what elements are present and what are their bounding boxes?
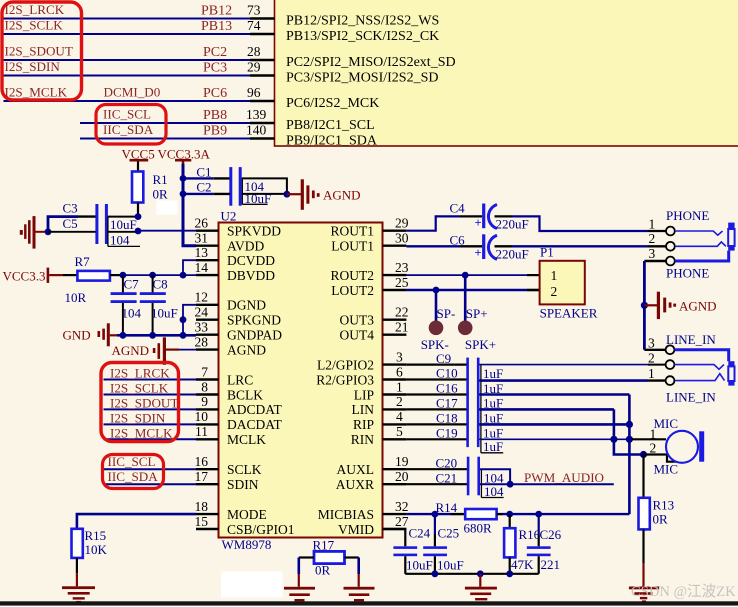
svg-text:OUT4: OUT4 [340, 328, 375, 343]
value box 104 (C1) [242, 178, 264, 194]
capacitor C20/C21 leads (left) [406, 469, 467, 484]
svg-text:I2S_SCLK: I2S_SCLK [5, 18, 64, 33]
wire I2S_SCLK to BCLK [104, 394, 197, 396]
svg-text:4: 4 [396, 409, 403, 424]
svg-text:RIP: RIP [353, 417, 374, 432]
svg-text:LOUT2: LOUT2 [331, 283, 374, 298]
ground (earth) below R17 right [344, 587, 375, 602]
svg-text:6: 6 [396, 364, 403, 379]
svg-text:1: 1 [648, 366, 655, 381]
wire R14 out to bias column [497, 513, 630, 515]
value box 104 (C20) [481, 469, 504, 499]
MCU sheet-symbol block (partial, top right) [275, 0, 738, 146]
white patch (erased area bottom left) [221, 572, 283, 598]
svg-text:VMID: VMID [338, 522, 374, 537]
svg-text:LIP: LIP [354, 387, 374, 402]
wire IIC_SDA to SDIN [104, 483, 197, 485]
svg-text:R7: R7 [75, 254, 91, 269]
svg-text:C24: C24 [409, 526, 431, 541]
node C25 bottom [432, 570, 439, 577]
svg-text:1: 1 [396, 379, 403, 394]
svg-text:AGND: AGND [227, 342, 266, 357]
svg-text:LIN: LIN [352, 402, 375, 417]
capacitor C7 [111, 275, 142, 335]
svg-text:104: 104 [484, 484, 504, 499]
svg-text:28: 28 [247, 44, 261, 59]
svg-text:I2S_MCLK: I2S_MCLK [110, 425, 173, 440]
svg-text:I2S_SDIN: I2S_SDIN [110, 410, 166, 425]
svg-text:12: 12 [195, 290, 209, 305]
svg-text:21: 21 [395, 320, 409, 335]
svg-text:GNDPAD: GNDPAD [227, 328, 282, 343]
svg-text:I2S_MCLK: I2S_MCLK [5, 85, 68, 100]
node VCC3.3A/C2 [180, 191, 187, 198]
resistor R16 [504, 514, 541, 574]
svg-text:R16: R16 [519, 527, 541, 542]
svg-text:2: 2 [551, 284, 558, 299]
ground AGND (left of pin 28) [112, 337, 180, 365]
svg-text:PB8/I2C1_SCL: PB8/I2C1_SCL [286, 118, 375, 133]
svg-text:5: 5 [396, 424, 403, 439]
svg-text:PC2: PC2 [203, 45, 227, 60]
svg-text:32: 32 [395, 499, 409, 514]
pin stub PB8 pin 139 [250, 122, 275, 124]
svg-text:16: 16 [195, 454, 209, 469]
resistor R14 [436, 500, 497, 536]
svg-text:96: 96 [247, 85, 261, 100]
svg-text:I2S_SDIN: I2S_SDIN [5, 59, 61, 74]
svg-text:I2S_LRCK: I2S_LRCK [110, 366, 170, 381]
capacitor C24 [393, 526, 432, 574]
svg-text:AUXR: AUXR [336, 477, 374, 492]
wire C16 out (LIP coupling) [480, 393, 630, 396]
pin stub PB12 pin 73 [250, 17, 275, 19]
svg-text:SDIN: SDIN [227, 477, 259, 492]
svg-text:1: 1 [551, 268, 558, 283]
svg-text:+: + [475, 216, 482, 230]
power port VCC3.3A [158, 147, 211, 166]
svg-text:C18: C18 [436, 411, 458, 426]
white patch (erased area near U2 top) [157, 201, 178, 215]
svg-text:31: 31 [195, 231, 209, 246]
svg-text:PC3: PC3 [203, 61, 227, 76]
annotation red rounded box around I2S labels [101, 363, 179, 442]
svg-text:C3: C3 [63, 201, 78, 216]
wire DCVDD branch [183, 260, 196, 275]
svg-text:3: 3 [396, 349, 403, 364]
wire I2S_SDIN to DACDAT [104, 423, 197, 425]
ground (signal gnd near C3/C5) [20, 216, 48, 249]
wire R7 output to DBVDD [123, 274, 196, 276]
svg-text:PB9/I2C1_SDA: PB9/I2C1_SDA [286, 134, 378, 149]
wire C20 out jog down [480, 469, 510, 484]
node VCC3.3A/C1 [180, 175, 187, 182]
node RIN/bias junction [626, 436, 633, 443]
svg-text:C4: C4 [450, 201, 466, 216]
svg-text:2: 2 [650, 440, 657, 455]
svg-text:C10: C10 [436, 366, 458, 381]
node SPKGND tap [180, 316, 187, 323]
svg-text:I2S_SCLK: I2S_SCLK [110, 381, 169, 396]
svg-text:SPKGND: SPKGND [227, 313, 281, 328]
svg-text:1uF: 1uF [483, 366, 503, 381]
svg-text:104: 104 [484, 470, 504, 485]
svg-text:SP-: SP- [437, 306, 456, 321]
wire C10 out to LINE_IN pin1 [480, 379, 667, 382]
svg-text:R2/GPIO3: R2/GPIO3 [316, 372, 374, 387]
resistor R1 [132, 172, 168, 217]
node R7/C8 [149, 272, 156, 279]
wire C21 out / PWM_AUDIO net [480, 483, 614, 485]
svg-text:1: 1 [649, 216, 656, 231]
svg-text:U2: U2 [221, 209, 237, 224]
svg-text:PHONE: PHONE [666, 265, 709, 280]
svg-text:15: 15 [195, 514, 209, 529]
node SP- tap on LOUT2 wire [433, 287, 440, 294]
wire C6 to PHONE pin2 [495, 245, 667, 247]
svg-text:IIC_SCL: IIC_SCL [103, 107, 151, 122]
node MIC pin2 / R13 junction [640, 451, 647, 458]
svg-text:MCLK: MCLK [227, 432, 266, 447]
value box 10uF (C3) [108, 217, 137, 232]
svg-text:2: 2 [396, 394, 403, 409]
node DCVDD/DBVDD [180, 272, 187, 279]
svg-text:C25: C25 [438, 526, 460, 541]
microphone symbol (MIC) [666, 431, 704, 463]
svg-text:SCLK: SCLK [227, 462, 262, 477]
svg-text:PC2/SPI2_MISO/I2S2ext_SD: PC2/SPI2_MISO/I2S2ext_SD [286, 55, 456, 70]
capacitor C1 [183, 164, 242, 205]
svg-text:ADCDAT: ADCDAT [227, 402, 283, 417]
wire C4 to PHONE pin1 [495, 216, 667, 231]
svg-text:MIC: MIC [654, 462, 679, 477]
wire LOUT2 to SPEAKER pin2 [406, 289, 539, 292]
annotation red rounded box around IIC labels [103, 455, 164, 489]
svg-text:GND: GND [63, 328, 91, 343]
wire LOUT1 to C6 [406, 245, 482, 247]
wire I2S_SDOUT to ADCDAT [104, 408, 197, 410]
svg-text:C19: C19 [436, 426, 458, 441]
svg-text:27: 27 [395, 514, 409, 529]
svg-text:3: 3 [648, 335, 655, 350]
wire I2S_MCLK / DCMI_D0 to PC6 [4, 100, 251, 102]
svg-text:PB8: PB8 [203, 108, 227, 123]
svg-text:RIN: RIN [351, 432, 375, 447]
svg-text:220uF: 220uF [496, 217, 529, 232]
ground AGND (near C1/C2) [287, 179, 361, 210]
svg-text:C16: C16 [436, 381, 458, 396]
wire I2S_SDOUT to PC2 [4, 59, 251, 61]
svg-text:+: + [475, 246, 482, 260]
resistor R15 [72, 528, 108, 586]
svg-text:DCMI_D0: DCMI_D0 [104, 85, 161, 100]
U2 right pin numbers [395, 216, 409, 529]
svg-text:10uF: 10uF [437, 558, 464, 573]
wire VMID filter ground rail [405, 573, 538, 575]
svg-text:PB12/SPI2_NSS/I2S2_WS: PB12/SPI2_NSS/I2S2_WS [286, 14, 439, 29]
value box column for 1uF values [481, 365, 503, 454]
node C5/ground junction [45, 228, 52, 235]
svg-text:10uF: 10uF [110, 217, 137, 232]
capacitor C3 [63, 201, 139, 245]
pin stub PC6 pin 96 [250, 100, 275, 102]
jack J-PHONE switch contacts and sleeve [675, 223, 735, 261]
node SP+ tap on ROUT2 wire [462, 272, 469, 279]
svg-text:DCVDD: DCVDD [227, 253, 275, 268]
capacitor stack C9/C10/C16/C17/C18/C19 leads (left) [406, 365, 466, 440]
svg-text:IIC_SDA: IIC_SDA [103, 122, 154, 137]
annotation red rounded box around I2S top labels [2, 2, 82, 100]
svg-text:13: 13 [195, 245, 209, 260]
svg-text:220uF: 220uF [496, 247, 529, 262]
wire I2S_LRCK to PB12 [4, 18, 251, 20]
svg-text:LINE_IN: LINE_IN [666, 390, 716, 405]
svg-text:LRC: LRC [227, 372, 253, 387]
svg-text:I2S_LRCK: I2S_LRCK [5, 2, 65, 17]
wire C1 return to AGND node [242, 178, 287, 194]
svg-text:C7: C7 [124, 277, 140, 292]
wire SPKVDD net to pin 26 [138, 230, 196, 232]
jack J-LINE_IN switch contacts and sleeve [675, 350, 735, 386]
op IC U2 WM8978 body [219, 209, 383, 553]
svg-text:I2S_SDOUT: I2S_SDOUT [110, 395, 178, 410]
power port VCC5 [122, 147, 155, 172]
wire DGND/SPKGND branch [183, 305, 196, 336]
bottom frame bar [0, 601, 738, 605]
capacitor C26 [527, 514, 562, 574]
U2 left pin numbers [195, 216, 209, 529]
wire ROUT1 to C4 [406, 216, 482, 230]
value box 10uF (C2) [242, 191, 271, 206]
svg-text:104: 104 [122, 306, 142, 321]
U2 right pin stubs [383, 231, 407, 529]
node C20/C21 junction [507, 481, 514, 488]
svg-text:47K: 47K [511, 557, 534, 572]
wire MICBIAS to R14 [406, 513, 465, 515]
wire I2S_SCLK to PB13 [4, 33, 251, 35]
svg-text:22: 22 [395, 305, 409, 320]
wire ROUT2 to SPEAKER pin1 [406, 274, 539, 276]
capacitor C9 plates (stacked column) [466, 358, 479, 448]
svg-text:24: 24 [195, 305, 209, 320]
node R1/C5/SPKVDD junction [135, 228, 142, 235]
node GNDPAD tap [180, 332, 187, 339]
svg-text:2: 2 [649, 231, 656, 246]
svg-text:I2S_SDOUT: I2S_SDOUT [5, 44, 73, 59]
connector LINE_IN (jack) [648, 332, 716, 405]
value box 104 (C5) [108, 232, 140, 248]
svg-text:AVDD: AVDD [227, 239, 265, 254]
svg-text:25: 25 [395, 275, 409, 290]
svg-text:PB12: PB12 [201, 4, 232, 19]
wire I2S_LRCK to LRC [104, 379, 197, 381]
node C25 top [432, 511, 439, 518]
svg-text:BCLK: BCLK [227, 387, 263, 402]
wire LINE_IN pin3 stub [644, 349, 665, 351]
pin stub PB13 pin 74 [250, 33, 275, 35]
svg-text:140: 140 [246, 123, 267, 138]
connector MIC [632, 416, 678, 477]
svg-text:LOUT1: LOUT1 [331, 239, 374, 254]
wire C3/C5 left link [48, 217, 78, 232]
svg-text:23: 23 [395, 260, 409, 275]
wire LIP/RIP bias vertical [628, 395, 631, 515]
node AGND junction [641, 302, 648, 309]
ground (earth) below R13 [629, 587, 659, 603]
svg-text:IIC_SDA: IIC_SDA [108, 469, 159, 484]
svg-text:29: 29 [247, 60, 261, 75]
pin stub PC2 pin 28 [250, 59, 275, 61]
wire LIN branch down to MIC pin2 [614, 409, 644, 454]
svg-text:19: 19 [395, 454, 409, 469]
svg-text:30: 30 [395, 231, 409, 246]
svg-text:OUT3: OUT3 [340, 313, 375, 328]
wire C19 out (RIN coupling) [480, 438, 633, 440]
wire C9 out to LINE_IN pin2 [480, 364, 667, 366]
node R1/C3 junction [135, 213, 142, 220]
svg-text:SPEAKER: SPEAKER [540, 306, 598, 321]
svg-text:P1: P1 [540, 245, 554, 260]
svg-text:MICBIAS: MICBIAS [318, 507, 374, 522]
power port VCC3.3 [3, 268, 78, 284]
svg-text:PWM_AUDIO: PWM_AUDIO [524, 470, 604, 485]
wire GND rail to GNDPAD [117, 334, 196, 337]
svg-text:SPK+: SPK+ [465, 337, 496, 352]
svg-text:73: 73 [247, 3, 261, 18]
svg-text:MIC: MIC [654, 416, 679, 431]
svg-text:10uF: 10uF [245, 191, 272, 206]
capacitor C5 [48, 216, 138, 232]
svg-text:104: 104 [110, 232, 130, 247]
testpoint SP- pad [429, 290, 456, 335]
svg-text:PC6: PC6 [203, 86, 227, 101]
ground (earth) below VMID rail [465, 574, 497, 601]
svg-text:R14: R14 [436, 500, 458, 515]
svg-text:29: 29 [395, 216, 409, 231]
node GND/C8 [149, 332, 156, 339]
capacitor C6 (polarized 220uF) [450, 233, 529, 262]
svg-text:10uF: 10uF [151, 306, 178, 321]
svg-text:8: 8 [201, 379, 208, 394]
svg-text:R1: R1 [153, 172, 168, 187]
U2 right pin names [316, 224, 374, 537]
node C1/C2/AGND junction [284, 191, 291, 198]
svg-text:C1: C1 [196, 164, 211, 179]
svg-text:7: 7 [201, 364, 208, 379]
wire VMID to C24 [383, 529, 406, 546]
svg-text:11: 11 [195, 424, 208, 439]
svg-text:28: 28 [195, 334, 209, 349]
svg-text:2: 2 [648, 350, 655, 365]
svg-text:9: 9 [201, 394, 208, 409]
svg-text:C2: C2 [196, 180, 211, 195]
resistor R13 [639, 455, 675, 587]
node GND/C7 [120, 332, 127, 339]
annotation red rounded box around IIC top labels [96, 105, 166, 145]
svg-text:33: 33 [195, 320, 209, 335]
svg-text:3: 3 [649, 246, 656, 261]
svg-text:221: 221 [541, 557, 561, 572]
svg-text:0R: 0R [315, 563, 331, 578]
svg-text:139: 139 [246, 107, 267, 122]
node R16 top [506, 511, 513, 518]
svg-text:10R: 10R [65, 290, 87, 305]
capacitor C4 (polarized 220uF) [450, 201, 529, 232]
node rail/ground stem [477, 570, 484, 577]
svg-text:AUXL: AUXL [337, 462, 375, 477]
svg-text:CSDN @江波ZK: CSDN @江波ZK [631, 583, 736, 600]
svg-text:14: 14 [195, 260, 209, 275]
ground (earth) below R15 [62, 586, 95, 602]
svg-text:CSB/GPIO1: CSB/GPIO1 [227, 522, 295, 537]
wire I2S_MCLK to MCLK [104, 438, 197, 440]
svg-text:PC6/I2S2_MCK: PC6/I2S2_MCK [286, 96, 379, 111]
svg-text:R15: R15 [85, 528, 107, 543]
svg-text:17: 17 [195, 469, 209, 484]
svg-text:26: 26 [195, 216, 209, 231]
node RIP/bias junction [626, 421, 633, 428]
svg-text:DGND: DGND [227, 298, 266, 313]
resistor R7 [65, 254, 123, 305]
wire C18 out (RIP coupling) [480, 423, 630, 426]
resistor R17 [299, 538, 359, 587]
svg-text:SP+: SP+ [466, 306, 488, 321]
svg-text:PB9: PB9 [203, 124, 227, 139]
svg-text:PHONE: PHONE [666, 208, 709, 223]
connector P1 SPEAKER [540, 245, 598, 321]
svg-text:74: 74 [247, 18, 261, 33]
ground GND (power gnd) [63, 323, 118, 346]
wire MODE pulldown [77, 514, 196, 529]
svg-text:1uF: 1uF [483, 439, 503, 454]
svg-text:SPKVDD: SPKVDD [227, 224, 281, 239]
svg-text:680R: 680R [464, 521, 493, 536]
capacitor C8 [140, 275, 178, 335]
capacitor C2 [183, 180, 230, 195]
svg-text:L2/GPIO2: L2/GPIO2 [317, 357, 374, 372]
svg-text:10K: 10K [85, 542, 108, 557]
svg-text:10: 10 [195, 409, 209, 424]
wire IIC_SCL to PB8 [80, 122, 250, 124]
svg-text:WM8978: WM8978 [222, 537, 272, 552]
capacitor C20/C21 plates [467, 457, 480, 496]
svg-text:PB13: PB13 [201, 19, 232, 34]
capacitor C25 [423, 514, 464, 574]
svg-text:18: 18 [195, 499, 209, 514]
pin stub PB9 pin 140 [250, 137, 275, 139]
svg-text:ROUT2: ROUT2 [331, 268, 375, 283]
svg-text:DBVDD: DBVDD [227, 268, 275, 283]
svg-text:0R: 0R [153, 187, 169, 202]
svg-text:C17: C17 [436, 396, 458, 411]
wire VCC3.3A vertical feed [183, 164, 196, 246]
pin stub PC3 pin 29 [250, 74, 275, 76]
svg-text:C26: C26 [540, 527, 562, 542]
U2 left pin names [227, 224, 295, 537]
svg-text:C20: C20 [436, 455, 458, 470]
svg-text:10uF: 10uF [406, 558, 433, 573]
node R16 bottom [506, 570, 513, 577]
svg-text:ROUT1: ROUT1 [331, 224, 375, 239]
wire PHONE pin3 to AGND/LINE_IN pin3 [644, 261, 666, 350]
testpoint SP+ pad [458, 275, 488, 335]
node C26 top [535, 511, 542, 518]
ground AGND (phone) [644, 292, 716, 319]
U2 left pin stubs [196, 231, 219, 529]
node RIN/LIN junction [610, 436, 617, 443]
wire AGND to pin 28 [179, 349, 196, 351]
svg-text:C21: C21 [436, 470, 458, 485]
